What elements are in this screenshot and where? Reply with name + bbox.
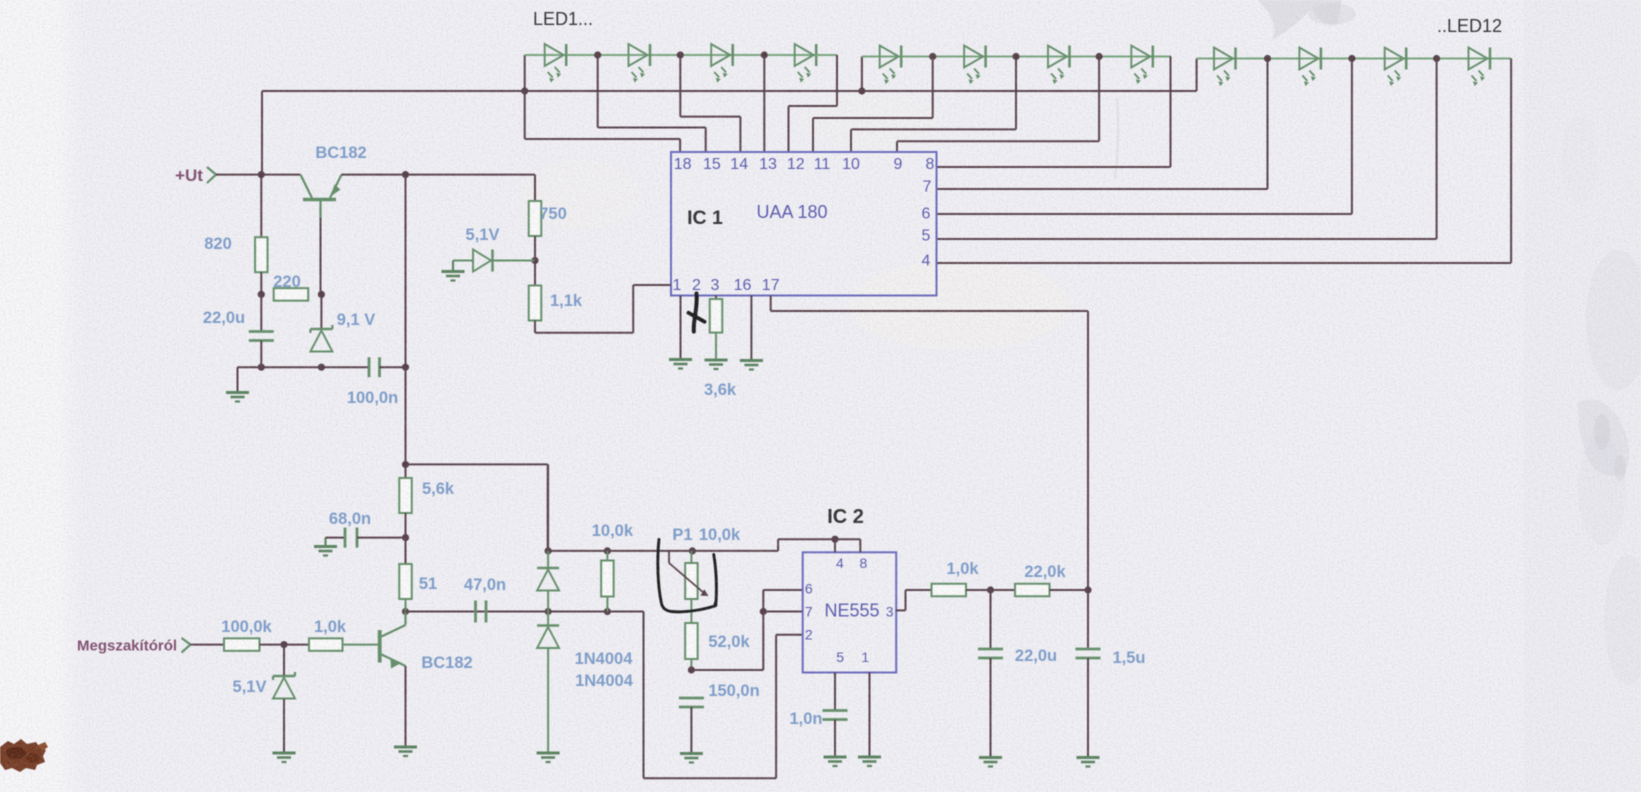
junction pin7 tee xyxy=(760,608,767,615)
resistor 1,0k input xyxy=(309,638,343,651)
wire pin5 to LED11/12 xyxy=(937,59,1437,240)
wire gnd stub topleft xyxy=(237,367,239,392)
label 52,0k xyxy=(708,633,750,651)
label ..LED12 xyxy=(1437,16,1502,36)
ground 5,1V input xyxy=(273,753,296,762)
LED D11 xyxy=(1385,48,1407,87)
wire IC2 pin1 down xyxy=(869,673,871,758)
wire 100k-1k xyxy=(260,644,310,646)
wire 68n gnd wire xyxy=(326,537,346,539)
wire zener to gnd xyxy=(283,699,285,753)
wire 1,1k stub xyxy=(534,261,536,286)
LED D5 xyxy=(880,46,902,85)
wire 22k to pin17 node xyxy=(1050,589,1089,591)
label 100,0n xyxy=(347,389,398,407)
capacitor 1,0n xyxy=(823,711,848,720)
wire +Ut rail left xyxy=(216,174,301,176)
ground under 3,6k xyxy=(705,360,728,369)
label 5,1V top xyxy=(466,226,500,244)
label IC 1 xyxy=(687,207,723,229)
wire LED row group3 xyxy=(1197,58,1512,60)
connector +Ut xyxy=(175,166,216,185)
label 1,5u xyxy=(1112,649,1145,667)
junction P1 top xyxy=(689,547,696,554)
junction 5,6k tee xyxy=(402,461,409,468)
LED D12 xyxy=(1469,48,1491,87)
label 1,0k input xyxy=(314,618,347,636)
wire 820 to 220 node xyxy=(260,272,262,294)
capacitor 150,0n xyxy=(679,698,704,707)
resistor 220 xyxy=(274,288,309,301)
label 22,0u left xyxy=(203,309,245,327)
diode D 1N4004 lower xyxy=(537,612,559,754)
junction LED11/LED12 node xyxy=(1433,55,1440,62)
wire riser x405 xyxy=(405,175,407,368)
wire pin18 supply jog xyxy=(525,91,680,152)
label Megszakitorol xyxy=(77,638,177,655)
IC1 bottom pin numbers xyxy=(673,277,780,294)
capacitor 68,0n xyxy=(345,528,357,548)
junction rail/100n riser xyxy=(402,171,409,178)
transistor Q2 BC182 xyxy=(380,612,406,669)
ground Q2 emitter xyxy=(394,747,417,756)
label 5,6k xyxy=(422,480,455,498)
label 3,6k xyxy=(704,381,737,399)
pen mark under pin2 xyxy=(689,294,705,332)
wire pin11 jog xyxy=(813,57,933,153)
junction bus/LED1 xyxy=(521,87,528,94)
resistor 22,0k xyxy=(1015,584,1050,597)
junction LED3/LED4 node xyxy=(761,51,768,58)
wire LED1 anode drop xyxy=(524,55,526,91)
resistor 51 xyxy=(399,564,412,599)
junction zener/gnd rail xyxy=(318,364,325,371)
wire Q1 emitter rail right xyxy=(342,174,536,176)
label 1,1k xyxy=(550,292,583,310)
wire pin12 jog from LED4 xyxy=(789,55,838,152)
wire 1k to base xyxy=(343,644,379,646)
wire 1,0n to gnd xyxy=(834,720,836,758)
wire 5,6k top tee xyxy=(406,367,548,551)
resistor 1,1k xyxy=(529,286,542,321)
label 10,0k xyxy=(592,522,634,540)
capacitor 100,0n xyxy=(369,357,380,377)
ground 150,0n xyxy=(680,754,703,763)
IC2 pin numbers xyxy=(805,555,894,665)
LED D7 xyxy=(1048,46,1070,85)
label 1N4004 lower xyxy=(575,672,634,690)
resistor 820 xyxy=(255,237,267,272)
capacitor 47,0n xyxy=(476,601,487,623)
junction 100n/riser xyxy=(402,364,409,371)
wire IC1 pin16 gnd stub xyxy=(750,296,752,361)
label P1 10,0k xyxy=(672,526,741,544)
junction diode col top xyxy=(545,608,552,615)
label 750 xyxy=(539,205,567,223)
wire LED row group2 xyxy=(862,56,1171,58)
scan smudges right edge xyxy=(1115,98,1641,685)
ground IC2 pin5 xyxy=(824,757,847,766)
wire IC2 pin3 out xyxy=(896,590,931,610)
LED D4 xyxy=(795,44,817,83)
label 1N4004 upper xyxy=(575,650,634,668)
junction out node xyxy=(987,586,994,593)
wire 820 branch xyxy=(260,175,262,238)
LED D9 xyxy=(1214,48,1236,87)
ground under IC1 pin16 xyxy=(740,361,763,370)
wire pin8 to LED8 xyxy=(937,57,1171,168)
wire 5,1V zener stub xyxy=(283,645,285,676)
junction LED5/LED6 node xyxy=(929,53,936,60)
ground 68,0n xyxy=(314,538,337,556)
junction +Ut/820 xyxy=(258,171,265,178)
wire 22,0u to gnd xyxy=(990,658,992,758)
junction LED6/LED7 node xyxy=(1012,53,1019,60)
ground IC2 pin1 xyxy=(858,757,881,766)
label 47,0n xyxy=(464,576,506,594)
resistor 5,6k xyxy=(399,478,412,513)
wire 750 branch xyxy=(534,175,536,201)
ink blob bottom left xyxy=(0,739,48,772)
label 22,0k xyxy=(1024,563,1066,581)
diode 5,1V top xyxy=(453,250,535,272)
ground 1,5u xyxy=(1077,758,1100,767)
LED D6 xyxy=(964,46,986,85)
label 5,1V input xyxy=(233,678,267,696)
wire 750 to node xyxy=(534,236,536,261)
pen mark over P1 xyxy=(658,540,717,612)
capacitor 22,0u left xyxy=(249,332,274,341)
zener D 5,1V input xyxy=(273,672,295,699)
label 68,0n xyxy=(329,510,371,528)
resistor 52,0k xyxy=(685,623,698,659)
wire 22u stub xyxy=(260,294,262,331)
junction bus/LED5 xyxy=(858,87,865,94)
wire IC1 pin2 gnd stub xyxy=(680,296,682,360)
wire Q1 base down xyxy=(320,218,322,294)
label 820 xyxy=(204,235,232,253)
wire 51 to collector xyxy=(405,599,407,612)
label UAA 180 xyxy=(756,202,827,222)
resistor 750 xyxy=(529,201,542,236)
capacitor 1,5u xyxy=(1076,649,1101,658)
LED D1 xyxy=(545,44,567,83)
junction 22u/gnd rail xyxy=(258,364,265,371)
junction LED10/LED11 node xyxy=(1348,55,1355,62)
wire pin6 to LED10/11 xyxy=(937,59,1352,215)
label BC182 Q2 xyxy=(421,654,472,672)
label 22,0u out xyxy=(1015,647,1057,665)
resistor 3,6k xyxy=(710,299,723,333)
ground under IC1 pin2 xyxy=(669,360,692,369)
wire input to 100k xyxy=(191,644,225,646)
wire LED9 anode riser xyxy=(1196,59,1198,92)
junction 52k/150n xyxy=(688,666,695,673)
wire Q2 emitter down xyxy=(405,666,407,747)
wire 1,1k to IC1 pin1 xyxy=(535,285,671,333)
wire 3,6k to gnd xyxy=(715,333,717,360)
resistor 10,0k xyxy=(601,551,614,612)
wire pin10 jog xyxy=(851,57,1016,153)
junction LED1/LED2 node xyxy=(594,51,601,58)
LED D3 xyxy=(711,44,733,83)
IC1 top pin numbers xyxy=(674,156,935,173)
label 100,0k xyxy=(221,618,272,636)
wire pin13 drop xyxy=(763,55,765,152)
label IC 2 xyxy=(827,506,864,528)
ground 22,0u out xyxy=(979,758,1002,767)
junction LED9/LED10 node xyxy=(1264,55,1271,62)
scan faint warm patches xyxy=(520,90,1070,350)
label LED1... xyxy=(533,9,593,29)
ground under diodes xyxy=(537,753,560,762)
op-amp U1 IC1 UAA180 box xyxy=(671,152,937,296)
zener D 9,1V xyxy=(310,325,332,352)
wire 1,5u stub xyxy=(1087,590,1089,649)
label 9,1 V xyxy=(337,311,376,329)
resistor 100,0k xyxy=(224,638,260,651)
wire IC2 pin5 down xyxy=(834,673,836,711)
scan smudge top right corner xyxy=(1258,0,1356,40)
wire pin7 link xyxy=(763,611,802,613)
junction 820/220/22u xyxy=(258,291,265,298)
wire 100n to riser xyxy=(380,366,406,368)
wire pin4 to LED12 xyxy=(937,59,1512,264)
label BC182 Q1 xyxy=(315,144,366,162)
LED D10 xyxy=(1299,48,1321,87)
connector Megszakitorol xyxy=(182,638,191,653)
wire 1k-22k xyxy=(966,589,1015,591)
potentiometer P1 xyxy=(685,551,698,670)
ground topleft xyxy=(226,393,249,402)
wire pin7 to LED9/10 xyxy=(937,59,1268,190)
wire pin15 jog xyxy=(598,55,706,152)
wire 5,6k to 68n node xyxy=(405,513,407,564)
wire LED row group1 xyxy=(525,54,837,56)
wire top row xyxy=(548,464,835,551)
wire zener 9,1V stub xyxy=(320,294,322,329)
wire 68n to node xyxy=(357,537,406,539)
junction diode col / top row xyxy=(545,547,552,554)
label 150,0n xyxy=(708,682,759,700)
wire 52k to pin6/7 riser xyxy=(691,590,802,670)
resistor 1,0k out xyxy=(932,584,967,597)
label NE555 xyxy=(824,601,879,621)
junction 22k/1,5u xyxy=(1084,586,1091,593)
diode D 1N4004 upper xyxy=(537,551,559,612)
LED D8 xyxy=(1131,46,1153,85)
junction 750/5,1V/1,1k xyxy=(531,257,538,264)
junction 68n node xyxy=(402,534,409,541)
wire 150n to gnd xyxy=(690,707,692,754)
wire 22,0u stub xyxy=(990,590,992,649)
capacitor 22,0u out xyxy=(978,649,1003,658)
junction LED7/LED8 node xyxy=(1096,53,1103,60)
wire 22u to gnd rail xyxy=(260,341,262,368)
junction input node xyxy=(280,641,287,648)
label 220 xyxy=(273,273,301,291)
junction 10k col bottom xyxy=(604,608,611,615)
IC1 right pin numbers xyxy=(922,179,932,270)
timer U2 IC2 NE555 box xyxy=(803,552,897,672)
node +V LED bus wire xyxy=(262,91,1197,175)
wire IC1 pin3 stub xyxy=(715,296,717,300)
wire row down to bottom rail xyxy=(644,612,803,779)
LED D2 xyxy=(629,44,651,83)
junction 220/zener/base xyxy=(318,291,325,298)
wire Q2 collector up xyxy=(405,599,407,612)
wire row 47n xyxy=(406,611,644,613)
wire pin14 jog xyxy=(680,55,740,152)
junction collector node xyxy=(402,608,409,615)
junction LED2/LED3 node xyxy=(677,51,684,58)
wire pin9 jog xyxy=(897,57,1099,153)
junction pin4 supply xyxy=(831,536,838,543)
ground 5,1V top xyxy=(442,261,465,281)
wire IC2 pin4/8 supply xyxy=(835,539,860,552)
transistor Q1 BC182 xyxy=(301,175,342,218)
wire LED5 anode drop xyxy=(861,57,863,92)
wire IC1 pin17 xyxy=(771,296,1088,591)
junction 10k top xyxy=(604,547,611,554)
P1 wiper xyxy=(669,551,709,596)
wire 1,5u to gnd xyxy=(1087,658,1089,758)
label 51 xyxy=(419,575,437,593)
label 1,0n xyxy=(789,710,822,728)
label 1,0k out xyxy=(946,560,979,578)
wire gnd rail left xyxy=(238,366,370,368)
